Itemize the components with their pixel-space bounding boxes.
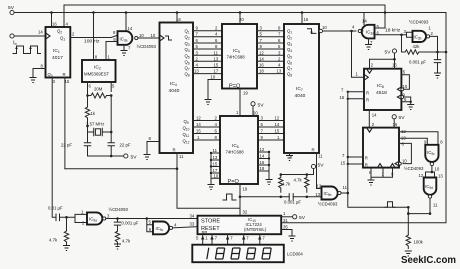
node rail-IC3c xyxy=(125,11,128,14)
svg-text:(INTERSIL): (INTERSIL) xyxy=(244,227,267,232)
input terminal f_in xyxy=(10,30,46,39)
wire Q12 row xyxy=(193,139,220,141)
display digits 18888 xyxy=(207,248,271,260)
IC8 cascade loop pin5 to pin10 xyxy=(397,69,409,91)
svg-text:4040: 4040 xyxy=(169,88,180,94)
svg-text:16: 16 xyxy=(260,160,265,165)
wire IC1 pin16 to rail xyxy=(51,13,53,28)
svg-text:14: 14 xyxy=(38,30,43,35)
svg-text:15: 15 xyxy=(213,162,218,167)
ground IC6 left pins xyxy=(208,185,215,190)
svg-text:R: R xyxy=(365,163,368,168)
ground reset delay xyxy=(114,244,121,249)
wire right chain down to crystal line xyxy=(110,96,112,143)
wire row7 xyxy=(257,67,284,69)
svg-text:31: 31 xyxy=(283,218,288,223)
svg-text:14: 14 xyxy=(259,56,264,61)
resistor 42k feedback xyxy=(402,35,447,54)
svg-text:12: 12 xyxy=(196,116,201,121)
svg-text:½CD4093: ½CD4093 xyxy=(318,201,338,206)
svg-text:STORE: STORE xyxy=(201,218,220,224)
svg-text:4518: 4518 xyxy=(376,90,387,96)
resistor 4.7k left pullup xyxy=(279,173,291,198)
wire row8 xyxy=(257,73,284,75)
wire reset line IC1R-IC4R xyxy=(65,168,177,170)
wire IC7 clock from IC3a output xyxy=(319,29,322,32)
NAND gate IC9a xyxy=(81,207,128,226)
svg-text:14: 14 xyxy=(362,19,367,24)
node rail-IC5pin20 xyxy=(239,11,242,14)
reset chain vertical xyxy=(348,92,409,208)
svg-text:LCD004: LCD004 xyxy=(287,252,303,257)
svg-text:15: 15 xyxy=(341,161,346,166)
svg-text:34: 34 xyxy=(190,213,195,218)
ground oscillator cap xyxy=(434,73,441,78)
ground 100k xyxy=(405,251,412,256)
svg-text:15: 15 xyxy=(275,129,280,134)
ground input 4.7k xyxy=(63,246,70,251)
svg-text:13: 13 xyxy=(214,56,219,61)
5V terminal crystal rail xyxy=(124,154,138,160)
svg-text:20M: 20M xyxy=(94,87,103,92)
wire IC10 pin35 to ground xyxy=(281,230,292,236)
wire row6 xyxy=(257,60,284,62)
svg-text:R: R xyxy=(366,90,369,95)
wire IC5 pin10 to ground xyxy=(208,80,222,100)
wire Q5 row xyxy=(193,54,222,56)
svg-text:74HC688: 74HC688 xyxy=(226,150,245,155)
svg-text:14: 14 xyxy=(128,26,133,31)
resistor 20M xyxy=(86,87,112,99)
wire Q10 row xyxy=(193,126,220,128)
wire IC2 pin8 to rail xyxy=(93,13,95,61)
svg-text:18: 18 xyxy=(259,69,264,74)
LCD display LCD664 xyxy=(192,245,303,263)
svg-text:12: 12 xyxy=(260,147,265,152)
svg-text:4.7k: 4.7k xyxy=(294,178,303,183)
node osc right edge xyxy=(445,51,448,54)
svg-text:10: 10 xyxy=(435,167,440,172)
node reset line 100k xyxy=(407,206,410,209)
IC8 4518 second half lower box xyxy=(341,119,400,168)
wire Q9 row xyxy=(193,120,220,122)
svg-text:11: 11 xyxy=(343,185,348,190)
svg-text:4040: 4040 xyxy=(295,93,306,99)
wire pulse line P=Q to RC network xyxy=(240,195,322,197)
capacitor 0.001uF oscillator xyxy=(409,52,441,73)
wire IC9a output store line xyxy=(106,218,198,220)
lower counter outputs to gates xyxy=(395,129,438,166)
svg-text:5V: 5V xyxy=(399,115,406,121)
svg-text:13: 13 xyxy=(277,69,282,74)
wire lower reset pins to chain xyxy=(348,157,363,164)
IC4 to IC5 bus Q1-Q8 xyxy=(185,26,223,78)
svg-text:R: R xyxy=(312,148,315,153)
node 1k-crystal xyxy=(86,125,89,128)
svg-text:R: R xyxy=(365,156,368,161)
svg-text:74HC688: 74HC688 xyxy=(227,55,246,60)
NAND gate IC9d vertical xyxy=(408,178,438,215)
svg-text:½CD4093: ½CD4093 xyxy=(409,20,429,25)
wire IC2 pin1 100Hz up to gate IC3c input 9 xyxy=(106,42,118,61)
5V terminal pullups xyxy=(311,163,324,169)
node after 0.01uF xyxy=(65,216,68,219)
IC1 4017 decade counter xyxy=(41,22,76,84)
svg-text:5V: 5V xyxy=(318,163,325,169)
node rail-IC4pin16 xyxy=(176,11,179,14)
wire IC9b input bracket xyxy=(147,219,153,232)
wire IC10 pin31 backplane to oscillator xyxy=(281,222,446,223)
svg-text:0.01 µF: 0.01 µF xyxy=(48,206,63,211)
wire IC1 pin3 Q0 down to 0.01uF xyxy=(52,78,56,218)
IC6 right grounded pins 12,14,16,18 xyxy=(258,147,270,179)
IC8 4518 dual BCD counter upper xyxy=(340,53,402,110)
capacitor 22pF right xyxy=(108,143,131,157)
IC7 4040 counter xyxy=(284,13,327,160)
ground IC10 pin35 xyxy=(289,236,296,241)
5V terminal lower counter pin16 xyxy=(392,115,405,121)
display segment bus wires xyxy=(196,234,265,245)
wire Q8 row xyxy=(193,73,222,75)
wire IC5 P=Q pin19 down to IC6 pin1 xyxy=(239,89,241,117)
svg-text:33: 33 xyxy=(190,222,195,227)
svg-text:5V: 5V xyxy=(131,154,138,160)
svg-text:15: 15 xyxy=(340,95,345,100)
IC8 pins 9 and 8 to ground xyxy=(397,92,412,104)
node rail-IC7pin16 xyxy=(301,11,304,14)
NAND gate IC9d2 mid (4518 reset driver) xyxy=(315,185,349,206)
svg-text:½CD4093: ½CD4093 xyxy=(109,207,129,212)
svg-text:11: 11 xyxy=(318,154,323,159)
IC4 to IC6 bus Q9-Q12 left xyxy=(183,116,221,145)
svg-text:P=Q: P=Q xyxy=(228,179,240,185)
resistor 4.7k right pullup xyxy=(294,173,309,198)
svg-text:19: 19 xyxy=(243,187,248,192)
svg-text:3.57 MHz: 3.57 MHz xyxy=(86,122,104,127)
IC7 to IC6 bus Q9-Q12 right xyxy=(258,116,293,145)
svg-text:13: 13 xyxy=(213,155,218,160)
svg-text:10: 10 xyxy=(139,33,144,38)
resistor 100k xyxy=(406,235,424,249)
svg-text:16: 16 xyxy=(304,17,309,22)
capacitor 22pF left xyxy=(61,143,91,157)
5V supply terminal top-left xyxy=(8,5,15,15)
svg-text:18: 18 xyxy=(260,166,265,171)
wire IC2 pin5 down xyxy=(110,82,112,92)
wire Q4 row xyxy=(193,48,222,50)
IC6 74HC688 comparator xyxy=(220,111,258,192)
wire Q10 row right xyxy=(258,126,284,128)
capacitor 0.001uF store xyxy=(284,194,301,205)
capacitor 0.01uF input coupling xyxy=(48,206,67,221)
svg-text:R: R xyxy=(173,148,176,153)
svg-text:13: 13 xyxy=(315,192,320,197)
svg-text:5V: 5V xyxy=(8,5,15,11)
ground IC7 pin8 xyxy=(286,156,293,161)
wire IC2 pin6 down xyxy=(87,82,89,92)
ground IC6 right pins xyxy=(266,180,273,185)
svg-text:100k: 100k xyxy=(414,240,424,245)
svg-text:100 Hz: 100 Hz xyxy=(84,39,100,45)
svg-text:4017: 4017 xyxy=(52,55,63,61)
node store line to IC9b inputs xyxy=(146,217,149,220)
IC6 left grounded pins 11,13,15,17,10 xyxy=(210,148,220,184)
svg-text:14: 14 xyxy=(372,113,377,118)
svg-text:14: 14 xyxy=(196,122,201,127)
wire IC1 pin2 output to gate IC3c input 8 xyxy=(70,35,117,37)
wire IC4 pin11 reset down xyxy=(177,153,240,208)
wire row2 xyxy=(257,36,284,38)
wire IC8 clock pin1 from IC3a xyxy=(352,31,365,77)
wire 5V rail across top xyxy=(14,12,446,14)
svg-text:22 pF: 22 pF xyxy=(61,143,72,148)
svg-text:5V: 5V xyxy=(385,50,392,56)
svg-text:10: 10 xyxy=(151,33,156,38)
svg-text:14: 14 xyxy=(275,122,280,127)
svg-text:17: 17 xyxy=(213,168,218,173)
svg-text:11: 11 xyxy=(179,154,184,159)
svg-text:R: R xyxy=(366,97,369,102)
svg-text:17: 17 xyxy=(214,69,219,74)
ground IC3c pin7 xyxy=(121,51,128,56)
wire IC9b output to RESET pin33 xyxy=(173,227,198,228)
node rail-IC1pin16 xyxy=(50,11,53,14)
svg-text:0.001 µF: 0.001 µF xyxy=(409,60,426,65)
capacitor 0.001uF reset delay xyxy=(114,219,139,232)
svg-text:12: 12 xyxy=(259,50,264,55)
node reset line xyxy=(176,167,179,170)
svg-text:42k: 42k xyxy=(413,44,421,49)
wire Q12 row right xyxy=(258,139,284,141)
ground IC1 pin8 xyxy=(30,78,37,83)
wire IC6 pin20 to 5V xyxy=(252,106,254,116)
wire cap common rail to 5V terminal xyxy=(88,155,124,157)
svg-text:19: 19 xyxy=(243,91,248,96)
node rail-IC2pin8 xyxy=(92,11,95,14)
wire Q2 row xyxy=(193,36,222,38)
crystal 3.57 MHz xyxy=(86,122,111,143)
5V terminal IC6 pin20 xyxy=(251,102,264,109)
svg-text:10: 10 xyxy=(211,74,216,79)
IC5 to IC7 bus xyxy=(257,26,284,74)
wire left chain pin6 node down to 1k xyxy=(87,92,89,108)
NAND gate IC3b RC oscillator xyxy=(400,26,437,53)
wire IC6 P=Q pin19 down to IC10 pin32 xyxy=(239,184,241,216)
svg-text:15: 15 xyxy=(196,129,201,134)
wire node to IC9a inputs xyxy=(67,214,88,222)
IC4 4040 counter xyxy=(149,13,194,160)
svg-text:½CD4093: ½CD4093 xyxy=(404,166,424,171)
wire row1 xyxy=(257,30,284,32)
IC5 74HC688 comparator xyxy=(211,13,258,96)
svg-text:5V: 5V xyxy=(299,215,306,221)
wire IC1 pin15 R down to reset line xyxy=(64,78,66,169)
svg-text:35: 35 xyxy=(283,225,288,230)
wire IC10 pin1 to 5V xyxy=(281,216,292,218)
svg-text:20: 20 xyxy=(253,111,258,116)
wire IC8 reset pins to chain xyxy=(348,92,364,99)
NAND gate IC9b reset xyxy=(149,220,178,235)
svg-text:15: 15 xyxy=(214,63,219,68)
NAND gate IC3a (buffer, output pin4 faces left) xyxy=(352,13,402,56)
svg-text:11: 11 xyxy=(213,148,218,153)
wire IC1 pin8 to ground xyxy=(33,69,46,78)
IC10 ICL7224 display driver xyxy=(198,216,282,235)
waveform pulse on reset line xyxy=(385,202,395,208)
5V terminal IC10 xyxy=(293,215,306,221)
wire Q9 row right xyxy=(258,120,284,122)
svg-text:13: 13 xyxy=(194,69,199,74)
svg-text:14: 14 xyxy=(260,154,265,159)
svg-text:0.001 µF: 0.001 µF xyxy=(122,221,139,226)
NAND gate IC3c (clock gate for IC4) xyxy=(118,13,160,51)
svg-text:18 kHz: 18 kHz xyxy=(385,28,401,34)
ground lower counter pin8 xyxy=(368,180,375,185)
svg-text:SeekIC.com: SeekIC.com xyxy=(401,255,456,266)
svg-text:4.7k: 4.7k xyxy=(122,239,131,244)
svg-text:16: 16 xyxy=(393,122,398,127)
wire rail corner down right edge xyxy=(445,13,447,222)
svg-text:10: 10 xyxy=(214,173,219,178)
svg-text:16: 16 xyxy=(259,63,264,68)
wire IC9c output to IC9d inputs xyxy=(419,171,444,179)
svg-text:MM5369EST: MM5369EST xyxy=(84,72,109,77)
wire Q7 row xyxy=(193,67,222,69)
svg-text:10: 10 xyxy=(322,25,327,30)
wire Q6 row xyxy=(193,60,222,62)
wire row5 xyxy=(257,54,284,56)
wire row4 xyxy=(257,48,284,50)
svg-text:11: 11 xyxy=(214,50,219,55)
resistor 4.7k input xyxy=(49,217,69,245)
wire IC4 pin8 to ground xyxy=(147,142,160,155)
ground IC3a pin7 xyxy=(365,45,372,50)
wire down to 100k xyxy=(407,207,409,235)
resistor 1k xyxy=(85,107,96,122)
ground IC8 pins8,9 xyxy=(407,105,414,110)
svg-text:P=Q: P=Q xyxy=(229,83,241,89)
svg-text:22 pF: 22 pF xyxy=(120,143,131,148)
waveform f_in square wave xyxy=(13,40,41,54)
svg-text:4.7k: 4.7k xyxy=(49,238,58,243)
svg-text:16: 16 xyxy=(52,22,57,27)
svg-text:12: 12 xyxy=(275,116,280,121)
wire IC1 Q2 top line xyxy=(64,5,385,28)
svg-text:R: R xyxy=(63,72,66,77)
resistor 4.7k reset delay xyxy=(115,231,131,245)
wire Q3 row xyxy=(193,42,222,44)
wire row3 xyxy=(257,42,284,44)
svg-text:32: 32 xyxy=(243,210,248,215)
node rail-Q2 line xyxy=(384,11,387,14)
wire IC7 pin11 R down to gate IC9d input xyxy=(317,153,322,189)
waveform store pulse xyxy=(223,194,236,200)
svg-text:11: 11 xyxy=(433,203,438,208)
NAND gate IC9c vertical xyxy=(424,140,443,172)
wire pullup rail to 5V xyxy=(281,169,314,175)
IC2 MM5369EST timebase xyxy=(82,55,116,89)
svg-text:10: 10 xyxy=(402,158,407,163)
svg-text:½CD4093: ½CD4093 xyxy=(137,44,157,49)
svg-text:13: 13 xyxy=(438,174,443,179)
lower counter bottom pins to ground xyxy=(369,168,394,180)
ground IC5 pin10 xyxy=(205,100,212,105)
svg-text:4.7k: 4.7k xyxy=(282,182,291,187)
wire IC7 pin8 to ground xyxy=(289,153,291,155)
node store cap xyxy=(116,217,119,220)
ground IC4 pin8 xyxy=(144,155,151,160)
wire Q11 row right xyxy=(258,133,284,135)
wire IC8 pin14 to lower counter pin2 xyxy=(368,110,370,128)
svg-text:5V: 5V xyxy=(258,103,265,109)
wire Q11 row xyxy=(193,133,220,135)
wire Q1 row xyxy=(193,30,222,32)
